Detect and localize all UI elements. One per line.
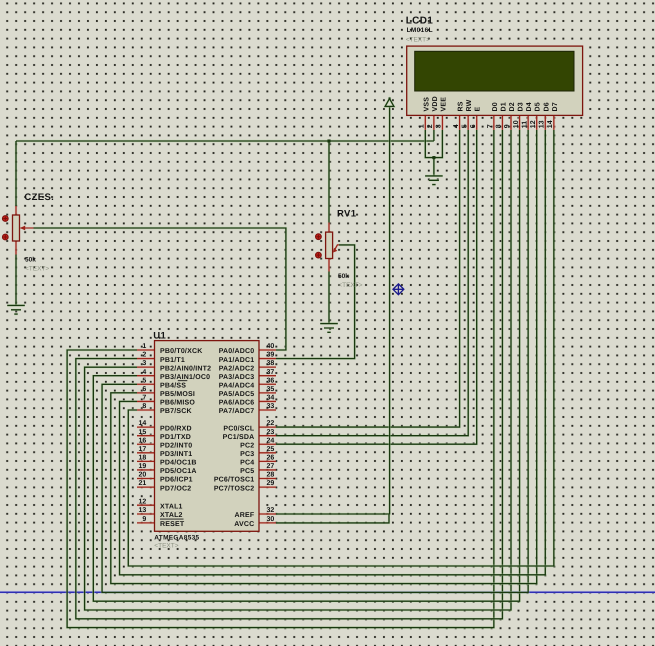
svg-text:PC4: PC4: [240, 460, 254, 467]
svg-text:14: 14: [547, 120, 554, 128]
svg-text:29: 29: [267, 480, 275, 487]
svg-text:D1: D1: [500, 102, 507, 111]
svg-text:21: 21: [139, 480, 147, 487]
wire VDD net: CZES top / RV1 top / LCD pin2 VDD: [16, 130, 434, 223]
microcontroller U1 right pin numbers: [267, 343, 275, 523]
svg-text:PD4/OC1B: PD4/OC1B: [160, 459, 197, 467]
svg-text:34: 34: [267, 395, 275, 402]
wire E to U1 PC2: [276, 130, 477, 444]
svg-text:RS: RS: [458, 101, 465, 111]
svg-text:<TEXT>: <TEXT>: [338, 282, 362, 289]
potentiometer CZES top pin stub: [15, 206, 18, 216]
svg-text:PB4/SS: PB4/SS: [160, 381, 186, 389]
LCD LCD1 screen: [415, 51, 574, 91]
svg-text:PA3/ADC3: PA3/ADC3: [219, 373, 255, 381]
microcontroller U1 left pin names: [160, 347, 211, 528]
wire LCD VSS/VEE to ground net: [425, 130, 442, 176]
svg-text:PC7/TOSC2: PC7/TOSC2: [214, 484, 255, 492]
svg-text:50k: 50k: [338, 273, 349, 280]
potentiometer RV1 terminal dot 1: [316, 234, 322, 240]
svg-text:PD1/TXD: PD1/TXD: [160, 433, 191, 441]
potentiometer RV1 wiper arrow: [333, 245, 339, 253]
svg-text:12: 12: [139, 498, 147, 505]
sheet boundary line: [0, 591, 655, 594]
LCD LCD1 pin numbers 1-14 (rotated): [419, 120, 555, 128]
potentiometer CZES body: [13, 215, 20, 241]
svg-text:PB0/T0/XCK: PB0/T0/XCK: [160, 347, 202, 355]
svg-text:ATMEGA8535: ATMEGA8535: [154, 535, 199, 542]
svg-text:D2: D2: [509, 102, 516, 111]
svg-text:PA6/ADC6: PA6/ADC6: [219, 399, 255, 407]
svg-text:24: 24: [267, 437, 275, 444]
svg-text:LCD1: LCD1: [406, 16, 434, 27]
svg-text:28: 28: [267, 472, 275, 479]
microcontroller U1 left pin numbers: [139, 343, 147, 523]
svg-text:36: 36: [267, 377, 275, 384]
svg-text:D4: D4: [526, 102, 533, 111]
svg-text:17: 17: [139, 446, 147, 453]
svg-text:20: 20: [139, 472, 147, 479]
svg-text:PD7/OC2: PD7/OC2: [160, 484, 191, 492]
svg-text:CZES.: CZES.: [24, 192, 54, 203]
svg-text:PA0/ADC0: PA0/ADC0: [219, 347, 255, 355]
svg-text:18: 18: [139, 454, 147, 461]
svg-text:PB6/MISO: PB6/MISO: [160, 399, 195, 407]
svg-text:12: 12: [530, 120, 537, 128]
svg-text:3: 3: [436, 124, 443, 128]
svg-text:PD0/RXD: PD0/RXD: [160, 424, 192, 432]
svg-text:PA4/ADC4: PA4/ADC4: [219, 381, 255, 389]
wire RS to U1 PC0/SCL: [276, 130, 460, 427]
svg-text:10: 10: [513, 120, 520, 128]
svg-text:1: 1: [142, 343, 146, 350]
potentiometer RV1 top pin stub: [328, 223, 331, 233]
svg-text:PB2/AIN0/INT2: PB2/AIN0/INT2: [160, 364, 211, 372]
microcontroller U1 right pin names: [214, 347, 255, 528]
svg-text:9: 9: [504, 124, 511, 128]
wire CZES wiper to U1 PA0/ADC0: [34, 228, 286, 350]
svg-text:13: 13: [139, 507, 147, 514]
svg-text:27: 27: [267, 463, 275, 470]
svg-text:PC6/TOSC1: PC6/TOSC1: [214, 476, 255, 484]
svg-text:PC3: PC3: [240, 451, 254, 458]
svg-text:AVCC: AVCC: [234, 521, 254, 528]
svg-text:E: E: [475, 107, 482, 112]
svg-text:PA7/ADC7: PA7/ADC7: [219, 407, 255, 415]
svg-text:PB7/SCK: PB7/SCK: [160, 407, 192, 415]
wire D4 to U1 PB4: [102, 130, 528, 593]
svg-text:PC0/SCL: PC0/SCL: [223, 424, 254, 432]
wire AVCC to power vertical: [276, 514, 389, 523]
svg-text:9: 9: [142, 516, 146, 523]
svg-text:D0: D0: [492, 102, 499, 111]
wire CZES bottom to ground: [15, 255, 18, 306]
svg-text:19: 19: [139, 463, 147, 470]
LCD LCD1 pin name labels (rotated): [423, 96, 559, 111]
ground for RV1: [320, 324, 338, 333]
svg-text:16: 16: [139, 437, 147, 444]
svg-text:RESET: RESET: [160, 521, 185, 528]
LCD LCD1 body: [407, 46, 583, 115]
svg-text:32: 32: [267, 507, 275, 514]
svg-text:38: 38: [267, 360, 275, 367]
svg-text:2: 2: [142, 352, 146, 359]
wire AREF to power terminal: [276, 106, 390, 514]
svg-text:XTAL1: XTAL1: [160, 503, 183, 510]
microcontroller U1 overline on PB4/SS and RESET: [160, 381, 187, 519]
svg-text:5: 5: [142, 377, 146, 384]
wire RV1 bottom to ground: [328, 272, 331, 324]
svg-text:33: 33: [267, 403, 275, 410]
svg-text:37: 37: [267, 369, 275, 376]
svg-text:4: 4: [453, 124, 460, 128]
potentiometer RV1 body: [326, 232, 333, 258]
wire RV1 wiper to U1 PA1/ADC1: [276, 245, 355, 359]
wire D6 to U1 PB6: [120, 130, 546, 575]
potentiometer RV1 bottom pin stub: [328, 259, 331, 272]
svg-text:13: 13: [538, 120, 545, 128]
svg-text:1: 1: [419, 124, 426, 128]
svg-text:8: 8: [142, 403, 146, 410]
svg-text:2: 2: [427, 124, 434, 128]
wire D3 to U1 PB3: [93, 130, 519, 601]
svg-text:PC5: PC5: [240, 468, 254, 475]
svg-text:8: 8: [496, 124, 503, 128]
svg-text:22: 22: [267, 420, 275, 427]
svg-text:D7: D7: [552, 102, 559, 111]
wire D1 to U1 PB1: [76, 130, 503, 619]
svg-text:<TEXT>: <TEXT>: [154, 542, 178, 549]
svg-text:PB5/MOSI: PB5/MOSI: [160, 390, 195, 398]
potentiometer CZES terminal dot 1: [2, 216, 8, 222]
svg-text:25: 25: [267, 446, 275, 453]
microcontroller U1 body: [155, 341, 260, 532]
potentiometer CZES wiper arrow: [20, 226, 34, 231]
svg-text:23: 23: [267, 429, 275, 436]
svg-text:PB1/T1: PB1/T1: [160, 356, 185, 364]
svg-text:PD2/INT0: PD2/INT0: [160, 441, 192, 449]
svg-text:11: 11: [521, 121, 528, 129]
svg-text:40: 40: [267, 343, 275, 350]
junction at RV1 top tee: [327, 139, 330, 142]
ground for CZES: [7, 305, 25, 314]
svg-text:PC1/SDA: PC1/SDA: [223, 433, 255, 441]
LCD LCD1 pin stubs 1-14: [425, 115, 554, 129]
svg-text:15: 15: [139, 429, 147, 436]
svg-text:4: 4: [142, 369, 146, 376]
svg-text:5: 5: [461, 124, 468, 128]
svg-text:PB3/AIN1/OC0: PB3/AIN1/OC0: [160, 373, 210, 381]
svg-text:PD5/OC1A: PD5/OC1A: [160, 467, 197, 475]
svg-text:D6: D6: [543, 102, 550, 111]
svg-text:7: 7: [487, 124, 494, 128]
microcontroller U1 right pin stubs: [258, 350, 276, 523]
svg-text:VDD: VDD: [432, 96, 439, 111]
origin marker (blue diamond): [393, 284, 404, 295]
wire D7 to U1 PB7: [128, 130, 554, 566]
svg-text:VSS: VSS: [423, 97, 430, 112]
potentiometer CZES terminal dot 2: [2, 234, 8, 240]
svg-text:LM016L: LM016L: [407, 27, 433, 34]
svg-text:PC2: PC2: [240, 442, 254, 449]
wire RW to U1 PC1/SDA: [276, 130, 468, 436]
svg-text:<TEXT>: <TEXT>: [406, 37, 430, 44]
svg-text:VEE: VEE: [440, 97, 447, 112]
power terminal VCC arrow: [385, 97, 394, 106]
svg-text:30: 30: [267, 516, 275, 523]
svg-text:14: 14: [139, 420, 147, 427]
svg-text:XTAL2: XTAL2: [160, 512, 183, 519]
svg-text:U1: U1: [153, 330, 166, 341]
potentiometer RV1 terminal dot 2: [316, 252, 322, 258]
svg-text:PA5/ADC5: PA5/ADC5: [219, 390, 255, 398]
svg-text:35: 35: [267, 386, 275, 393]
wire D5 to U1 PB5: [111, 130, 537, 584]
svg-text:PD6/ICP1: PD6/ICP1: [160, 476, 193, 484]
svg-text:RW: RW: [466, 99, 473, 111]
svg-text:<TEXT>: <TEXT>: [25, 266, 49, 273]
svg-text:7: 7: [142, 395, 146, 402]
potentiometer CZES bottom pin stub: [15, 241, 18, 255]
svg-text:RV1: RV1: [337, 209, 357, 220]
svg-text:39: 39: [267, 352, 275, 359]
svg-text:AREF: AREF: [235, 512, 255, 519]
svg-text:50k: 50k: [25, 256, 36, 263]
microcontroller U1 left pin stubs: [137, 350, 156, 523]
svg-text:D5: D5: [535, 102, 542, 111]
ground for LCD VSS/VEE: [425, 176, 443, 185]
svg-text:PA1/ADC1: PA1/ADC1: [219, 356, 255, 364]
svg-text:PA2/ADC2: PA2/ADC2: [219, 364, 255, 372]
svg-text:6: 6: [142, 386, 146, 393]
wire D0 to U1 PB0: [67, 130, 494, 628]
svg-text:3: 3: [142, 360, 146, 367]
svg-text:26: 26: [267, 454, 275, 461]
wire D2 to U1 PB2: [85, 130, 511, 610]
junction at VSS/VEE ground tee: [432, 156, 435, 159]
svg-text:6: 6: [470, 124, 477, 128]
svg-text:PD3/INT1: PD3/INT1: [160, 450, 192, 458]
svg-text:D3: D3: [518, 102, 525, 111]
